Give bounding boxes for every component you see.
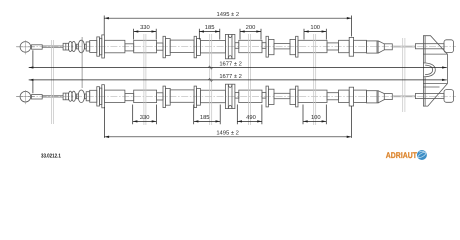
- bracket fold line bottom: [423, 83, 447, 85]
- bracket outline: [423, 36, 447, 106]
- svg-text:100: 100: [310, 24, 320, 31]
- bracket fold line top: [423, 53, 447, 55]
- svg-text:185: 185: [200, 114, 210, 121]
- bottom cable assembly: [16, 84, 456, 108]
- svg-text:ADRIAUT: ADRIAUT: [386, 150, 418, 160]
- bottom dimension 185: [194, 105, 221, 125]
- svg-text:1677 ± 2: 1677 ± 2: [219, 61, 242, 68]
- break kink marks on middle dimension lines: [208, 66, 213, 82]
- middle dimension 1677±2 lower: [29, 80, 447, 93]
- svg-text:1495 ± 2: 1495 ± 2: [217, 11, 240, 18]
- break line pair at x=210: [210, 34, 212, 125]
- svg-text:330: 330: [140, 24, 150, 31]
- svg-text:200: 200: [246, 24, 256, 31]
- middle dimension 1677±2 upper: [29, 50, 447, 67]
- svg-text:1495 ± 2: 1495 ± 2: [216, 130, 239, 137]
- equalizer bracket: [423, 36, 447, 106]
- svg-text:100: 100: [311, 114, 321, 121]
- top dimension 200: [240, 29, 261, 40]
- reference line at x=82: [81, 37, 83, 88]
- bottom dimension 100: [303, 105, 326, 125]
- ADRIAUTO logo globe: [417, 150, 427, 160]
- top dimension 1495±2: [104, 16, 351, 37]
- bottom dimension 490: [237, 105, 262, 125]
- top dimension 330: [134, 29, 157, 40]
- bracket lower lip: [423, 86, 439, 88]
- svg-text:330: 330: [140, 114, 150, 121]
- top cable assembly: [16, 34, 456, 58]
- break line pair at x=52: [51, 34, 405, 125]
- break line pair at x=314: [314, 34, 316, 125]
- svg-text:1677 ± 2: 1677 ± 2: [219, 73, 242, 80]
- top dimension 185: [199, 29, 220, 40]
- break line pair at x=403: [403, 38, 405, 112]
- svg-text:33.0212.1: 33.0212.1: [41, 154, 61, 160]
- break line pair at x=249: [249, 34, 251, 125]
- svg-text:185: 185: [205, 24, 215, 31]
- break line pair at x=145: [144, 34, 146, 125]
- bracket inner left edge: [424, 36, 426, 106]
- bottom dimension 330: [133, 105, 157, 125]
- bottom dimension 1495±2: [104, 106, 351, 138]
- top dimension 100: [304, 29, 326, 40]
- svg-text:490: 490: [246, 114, 256, 121]
- bracket hook notch: [423, 63, 435, 77]
